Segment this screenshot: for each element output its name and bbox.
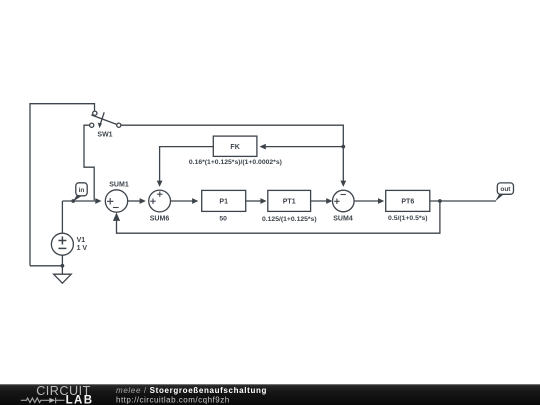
svg-text:http://circuitlab.com/cqhf9zh: http://circuitlab.com/cqhf9zh <box>116 395 230 404</box>
value PT6 transfer function <box>388 215 428 222</box>
footer title text <box>116 386 267 404</box>
wire PT1 to SUM4 <box>311 198 333 204</box>
svg-text:V1: V1 <box>77 237 86 244</box>
wire P1 to PT1 <box>246 198 267 204</box>
summer SUM6 <box>149 190 171 223</box>
footer bar <box>0 384 540 405</box>
value PT1 transfer function <box>262 216 317 223</box>
wire disturbance line to SUM4 <box>121 125 346 187</box>
svg-text:LAB: LAB <box>66 394 94 405</box>
svg-text:50: 50 <box>219 216 227 223</box>
svg-text:SUM1: SUM1 <box>109 182 129 189</box>
svg-text:PT1: PT1 <box>283 198 296 205</box>
svg-text:SUM4: SUM4 <box>333 215 353 222</box>
flag out <box>495 183 513 201</box>
svg-text:SW1: SW1 <box>97 131 112 138</box>
svg-text:FK: FK <box>230 144 239 151</box>
svg-text:PT6: PT6 <box>401 198 414 205</box>
value P1 gain 50 <box>219 216 227 223</box>
wire SUM6 to P1 <box>171 198 199 204</box>
svg-text:melee / Stoergroeßenaufschaltu: melee / Stoergroeßenaufschaltung <box>116 386 267 395</box>
node FK tap <box>341 145 345 149</box>
svg-text:SUM6: SUM6 <box>150 216 170 223</box>
flag in <box>73 183 88 202</box>
svg-text:in: in <box>79 187 85 194</box>
block FK <box>213 136 257 156</box>
svg-text:out: out <box>500 186 511 193</box>
wire SUM1 to SUM6 <box>128 198 146 204</box>
wire FK input <box>260 144 344 150</box>
block P1 <box>202 190 246 211</box>
wire input node to SUM1 <box>62 198 101 204</box>
wire SW1 bottom throw to input node <box>84 125 94 200</box>
svg-text:0.16*(1+0.125*s)/(1+0.0002*s): 0.16*(1+0.125*s)/(1+0.0002*s) <box>189 159 282 166</box>
summer SUM1 <box>105 182 129 213</box>
wire V1 bottom to left loop <box>30 265 62 267</box>
source V1 <box>51 201 87 274</box>
svg-text:0.5/(1+0.5*s): 0.5/(1+0.5*s) <box>388 215 428 222</box>
value FK transfer function <box>189 159 282 166</box>
switch SW1 <box>90 111 121 138</box>
node output tap <box>438 199 442 203</box>
node ground junction <box>61 264 65 268</box>
svg-text:0.125/(1+0.125*s): 0.125/(1+0.125*s) <box>262 216 317 223</box>
svg-text:P1: P1 <box>219 198 228 205</box>
wire feedback to SUM1 <box>113 201 440 233</box>
block PT1 <box>268 190 311 211</box>
wire SUM4 to PT6 <box>354 198 384 204</box>
block PT6 <box>386 190 430 211</box>
ground <box>54 274 72 283</box>
wire left vertical loop <box>30 104 95 266</box>
svg-text:1 V: 1 V <box>77 245 88 252</box>
wire PT6 to out <box>430 200 496 202</box>
wire FK output to SUM6 <box>157 147 214 187</box>
node in flag tap <box>71 199 75 203</box>
logo CircuitLab <box>21 384 94 405</box>
summer SUM4 <box>333 190 355 222</box>
